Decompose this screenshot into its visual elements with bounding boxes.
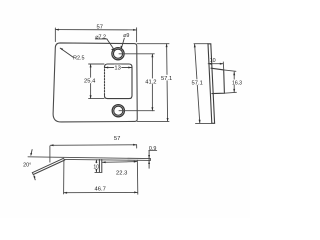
bent lip tip cap [32,173,33,175]
label dia 7.2 leader [95,38,107,40]
dimension 57 bottom extension left [49,146,51,162]
dimension 46.7 line [64,191,138,193]
dimension 10 bottom arrows [95,160,97,163]
dimension 57 bottom line [50,144,136,147]
side view top extension line [194,43,208,45]
bottom view plate right end cap [149,159,151,161]
latch tab right line [101,160,103,173]
dimension 46.7 left extension [63,161,65,194]
svg-text:46.7: 46.7 [95,186,106,192]
svg-text:16.3: 16.3 [232,80,242,86]
latch tab left line [98,160,100,173]
svg-text:22.3: 22.3 [116,171,127,177]
angle 20 upper arrow [31,150,32,155]
dimension 57.1 front text [160,75,173,81]
front view plate outline [53,43,137,122]
label dia 9 leader [121,38,124,48]
dimension 13 text [114,64,121,69]
dimension 57 top extension lines [54,28,56,42]
dimension 57 bottom right tick [136,145,138,148]
svg-text:57: 57 [114,136,120,142]
latch cutout dashed left edge [104,67,106,97]
latch tab bottom tick [95,171,102,173]
svg-text:10: 10 [210,58,216,64]
top screw hole inner circle [113,49,122,58]
svg-text:41.2: 41.2 [145,79,156,85]
svg-text:13: 13 [114,65,120,71]
side view latch box top extension [224,70,236,71]
bent lip top line [32,158,64,173]
right extension line for 22.3 and 46.7 [136,160,138,194]
svg-text:R2.5: R2.5 [73,56,84,62]
dimension 25.4 extension lines [89,63,104,65]
dimension 25.4 text [83,78,96,84]
dimension 16.3 line [233,72,235,92]
dimension 22.3 line [102,161,137,164]
svg-text:57.1: 57.1 [192,80,203,86]
dimension 16.3 text [231,80,243,85]
dimension 13 line [105,67,131,69]
dimension 57.1 front line [167,44,168,122]
svg-text:25.4: 25.4 [84,79,96,85]
svg-text:10: 10 [93,164,99,170]
dimension 0.9 line and arrows [149,150,157,152]
dimension 57.1 side line [195,44,200,123]
dimension 25.4 line [90,64,92,99]
dimension 57.1 side text [191,79,204,85]
bottom view plate top surface line [28,157,150,159]
top screw hole outer circle [112,48,124,60]
svg-text:57: 57 [96,25,102,31]
bottom hole centre line [119,110,154,112]
angle 20 lower arrow [34,176,35,180]
side view plate bar [208,44,215,124]
label R2.5 leader [60,48,73,57]
svg-text:⌀7.2: ⌀7.2 [95,34,106,40]
bent lip bottom line [33,160,65,175]
dimension 41.2 line [151,54,153,111]
svg-text:20°: 20° [23,162,31,168]
dimension 57 top line [55,29,136,31]
top hole centre line [119,53,154,55]
bottom view plate bottom surface line [64,159,151,160]
side view latch box bottom extension [224,91,236,94]
side view bottom extension line [196,122,212,124]
bottom screw hole inner circle [114,106,123,115]
svg-text:57.1: 57.1 [161,76,172,82]
latch cutout rectangle [105,64,133,99]
side view latch box [211,68,224,93]
dimension 41.2 text [144,78,157,84]
bottom screw hole outer circle [112,105,124,117]
dimension 10 side line [208,63,223,65]
front view right extension lines [137,43,169,45]
